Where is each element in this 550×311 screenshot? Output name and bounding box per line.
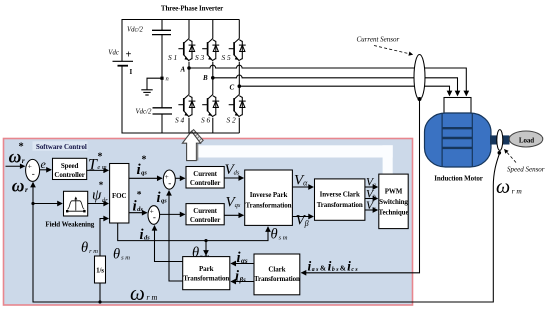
svg-text:*: *	[19, 142, 24, 153]
capacitor Vdc/2 top	[152, 30, 171, 34]
svg-text:Software Control: Software Control	[36, 144, 87, 151]
svg-text:FOC: FOC	[112, 192, 127, 200]
svg-text:*: *	[98, 152, 103, 163]
software control region	[4, 139, 413, 306]
FOC block	[110, 164, 129, 224]
ground	[147, 78, 162, 89]
svg-text:Clark: Clark	[268, 266, 285, 274]
wire Vds	[224, 177, 243, 179]
svg-text:A: A	[180, 66, 186, 74]
wire	[6, 165, 25, 167]
battery Vdc	[113, 61, 134, 65]
svg-text:Transformation: Transformation	[254, 275, 300, 283]
induction motor body	[425, 113, 492, 167]
wire ids*	[129, 212, 147, 214]
svg-text:Transformation: Transformation	[317, 201, 363, 209]
wire Vqs	[224, 214, 243, 216]
block arrow into inverter	[191, 130, 204, 144]
svg-text:Park: Park	[199, 265, 214, 273]
svg-text:Inverse Park: Inverse Park	[250, 191, 288, 199]
summing junction d	[148, 206, 160, 225]
dc mid leg	[161, 20, 163, 134]
park outputs: i qs feedback	[169, 191, 183, 281]
inverse clark transformation	[315, 179, 365, 220]
current sensor	[414, 55, 425, 100]
svg-text:Load: Load	[519, 137, 534, 145]
speed feedback wire	[33, 154, 499, 302]
phase wire B	[213, 75, 458, 95]
transistor S2	[229, 95, 246, 117]
svg-text:S 6: S 6	[201, 116, 211, 125]
capacitor Vdc/2 bottom	[153, 108, 173, 114]
integrator 1/s	[95, 256, 106, 283]
svg-text:Transformation: Transformation	[183, 274, 229, 282]
inverse park transformation	[245, 170, 293, 225]
transistor S3	[202, 39, 219, 61]
node C	[238, 84, 242, 88]
wires Va Vb Vc	[365, 186, 378, 188]
phase wire A	[189, 65, 466, 95]
svg-text:Speed Sensor: Speed Sensor	[507, 166, 545, 174]
svg-text:*: *	[142, 155, 147, 166]
clark transformation	[254, 254, 300, 295]
svg-text:Transformation: Transformation	[246, 201, 292, 209]
current controller d	[186, 204, 224, 225]
wire i alpha s	[231, 263, 254, 265]
wire iqs*	[129, 177, 162, 179]
svg-text:Current: Current	[193, 170, 217, 178]
park transformation	[183, 257, 230, 290]
svg-text:Current: Current	[193, 207, 217, 215]
svg-text:-: -	[32, 169, 35, 179]
svg-text:Current Sensor: Current Sensor	[357, 36, 400, 44]
current sensor feedback wire	[302, 99, 420, 273]
wire to current controller q	[175, 177, 184, 179]
svg-text:S 3: S 3	[195, 53, 205, 62]
park outputs: i ds feedback	[155, 226, 183, 262]
node n	[160, 77, 163, 80]
summing junction q	[163, 170, 175, 189]
load	[509, 131, 543, 147]
svg-text:Induction Motor: Induction Motor	[434, 174, 482, 182]
svg-text:I: I	[130, 68, 133, 76]
shaft	[490, 135, 510, 144]
svg-text:Vdc/2: Vdc/2	[136, 109, 152, 116]
transistor S4	[178, 95, 195, 117]
svg-text:Switching: Switching	[379, 198, 408, 206]
svg-text:+: +	[126, 50, 132, 61]
software control label	[33, 141, 88, 150]
svg-text:B: B	[202, 74, 208, 82]
svg-text:S 5: S 5	[222, 53, 232, 62]
svg-text:n: n	[166, 76, 169, 83]
wire 1/s to FOC	[100, 219, 108, 257]
PWM switching technique	[379, 174, 408, 229]
svg-text:-: -	[168, 178, 171, 188]
transistor S6	[202, 95, 219, 117]
svg-text:S 4: S 4	[175, 116, 185, 125]
inverter legs	[188, 20, 190, 134]
theta sm distribution wire	[118, 223, 268, 241]
phase wire C	[239, 86, 449, 95]
summing junction speed	[26, 159, 40, 181]
node B	[211, 76, 215, 80]
svg-text:C: C	[230, 84, 235, 92]
svg-text:Field Weakening: Field Weakening	[45, 221, 94, 229]
transistor S5	[229, 39, 246, 61]
node: branch to field weakening	[31, 202, 34, 205]
wire V alpha	[292, 186, 313, 188]
wire Tem	[87, 169, 109, 171]
svg-text:Speed: Speed	[61, 162, 79, 170]
speed controller	[53, 158, 87, 179]
svg-text:S 2: S 2	[227, 116, 237, 125]
node A	[187, 66, 191, 70]
svg-text:e: e	[41, 157, 47, 171]
svg-text:Controller: Controller	[190, 216, 220, 224]
wire V beta	[292, 216, 313, 218]
svg-text:-: -	[153, 212, 156, 222]
terminal box	[444, 98, 471, 114]
svg-text:Technique: Technique	[379, 208, 409, 216]
current controller q	[186, 167, 224, 189]
svg-text:Controller: Controller	[190, 179, 220, 187]
wire to current controller d	[160, 213, 185, 215]
svg-text:Vdc: Vdc	[108, 50, 119, 57]
wire psi dr	[88, 203, 109, 205]
svg-text:Inverse Clark: Inverse Clark	[320, 191, 360, 199]
speed sensor disc	[497, 130, 503, 151]
svg-text:1/s: 1/s	[96, 266, 104, 274]
PWM-to-inverter signal channel	[195, 145, 393, 157]
svg-text:PWM: PWM	[385, 187, 403, 195]
dashed pointer to current sensor	[374, 46, 413, 55]
node e wire	[40, 169, 51, 171]
svg-text:Three-Phase Inverter: Three-Phase Inverter	[161, 5, 223, 13]
transistor S1	[178, 39, 195, 61]
inverter outline	[122, 20, 239, 134]
wire omega rm to 1/s	[98, 300, 101, 303]
svg-text:Controller: Controller	[54, 171, 84, 179]
svg-text:*: *	[137, 191, 142, 201]
wire i beta s	[231, 281, 254, 283]
svg-text:Vdc/2: Vdc/2	[127, 27, 143, 34]
svg-text:*: *	[99, 180, 104, 190]
field weakening box	[64, 191, 88, 216]
svg-text:S 1: S 1	[168, 53, 177, 62]
